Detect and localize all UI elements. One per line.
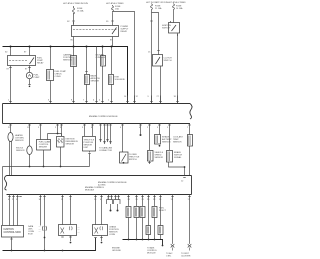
svg-text:21 10A: 21 10A (155, 7, 162, 10)
svg-text:SOLENOID: SOLENOID (115, 79, 126, 81)
svg-text:RELAY: RELAY (37, 62, 44, 65)
svg-text:MODULE: MODULE (85, 190, 95, 192)
svg-text:16 10A: 16 10A (77, 10, 84, 13)
svg-text:CONTROL MOD: CONTROL MOD (4, 231, 22, 234)
svg-text:SENSOR: SENSOR (162, 142, 171, 144)
svg-text:SWITCH: SWITCH (162, 28, 170, 30)
svg-text:CONN: CONN (55, 76, 61, 78)
svg-text:ECM: ECM (28, 234, 33, 236)
svg-text:14 10A: 14 10A (176, 7, 183, 10)
svg-text:CTRL: CTRL (166, 256, 172, 258)
svg-text:HOT AT ALL TIMES: HOT AT ALL TIMES (106, 2, 124, 5)
svg-text:SENSOR: SENSOR (173, 142, 182, 144)
svg-text:SIGNAL: SIGNAL (174, 156, 182, 159)
svg-text:MODULE: MODULE (147, 253, 156, 255)
svg-text:SENDER: SENDER (39, 147, 48, 149)
svg-text:UNIT: UNIT (84, 147, 89, 149)
svg-text:HOT IN START OR RUN: HOT IN START OR RUN (146, 1, 169, 4)
svg-text:SENSOR: SENSOR (66, 144, 75, 146)
svg-text:PUMP: PUMP (34, 77, 40, 79)
svg-text:GROUND: GROUND (112, 250, 121, 252)
svg-text:RELAY: RELAY (121, 30, 128, 33)
svg-text:SENSOR: SENSOR (155, 157, 164, 159)
svg-text:CONNECTOR: CONNECTOR (99, 150, 112, 152)
svg-text:INJECT: INJECT (159, 210, 167, 212)
svg-text:ENGINE CONTROL MODULE: ENGINE CONTROL MODULE (89, 116, 118, 118)
svg-text:HOT AT ALL TIMES IN RUN: HOT AT ALL TIMES IN RUN (63, 2, 88, 5)
svg-text:CLUSTER: CLUSTER (181, 256, 191, 258)
svg-text:SENSOR: SENSOR (91, 81, 100, 83)
svg-text:SENSOR: SENSOR (16, 150, 25, 152)
svg-text:SENSOR: SENSOR (63, 60, 72, 62)
svg-text:SWITCH: SWITCH (129, 159, 137, 161)
svg-text:SWITCH: SWITCH (164, 60, 172, 62)
svg-text:CONN: CONN (109, 234, 115, 236)
svg-text:HOT AT ALL TIMES: HOT AT ALL TIMES (168, 1, 186, 4)
svg-text:SENSOR: SENSOR (15, 140, 24, 142)
svg-text:CONTROL: CONTROL (96, 57, 107, 59)
